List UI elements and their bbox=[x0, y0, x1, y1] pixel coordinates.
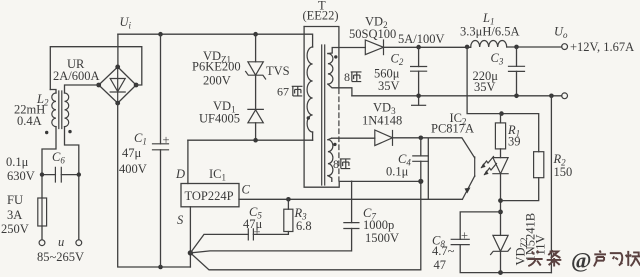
svg-text:+: + bbox=[461, 229, 468, 243]
svg-text:11V: 11V bbox=[534, 234, 548, 255]
svg-text:6.8: 6.8 bbox=[296, 219, 312, 233]
svg-text:TVS: TVS bbox=[266, 64, 290, 78]
svg-text:+: + bbox=[163, 133, 170, 147]
svg-text:8: 8 bbox=[344, 70, 350, 84]
svg-text:PC817A: PC817A bbox=[431, 122, 474, 136]
svg-text:85~265V: 85~265V bbox=[37, 250, 84, 264]
svg-text:47: 47 bbox=[434, 258, 447, 272]
svg-text:39: 39 bbox=[508, 135, 521, 149]
svg-text:35V: 35V bbox=[378, 79, 400, 93]
svg-text:TOP224P: TOP224P bbox=[185, 189, 234, 203]
svg-text:4.7~: 4.7~ bbox=[432, 244, 455, 258]
svg-text:(EE22): (EE22) bbox=[303, 9, 339, 23]
svg-text:630V: 630V bbox=[7, 169, 35, 183]
svg-text:FU: FU bbox=[7, 193, 23, 207]
svg-text:5A/100V: 5A/100V bbox=[398, 32, 445, 46]
svg-text:35V: 35V bbox=[474, 80, 496, 94]
svg-text:0.4A: 0.4A bbox=[17, 114, 42, 128]
svg-text:u: u bbox=[58, 235, 64, 249]
svg-text:3.3μH/6.5A: 3.3μH/6.5A bbox=[460, 25, 519, 39]
svg-text:UF4005: UF4005 bbox=[199, 112, 240, 126]
svg-text:250V: 250V bbox=[1, 222, 29, 236]
svg-text:150: 150 bbox=[554, 165, 573, 179]
svg-text:200V: 200V bbox=[203, 74, 231, 88]
svg-text:@: @ bbox=[571, 248, 591, 273]
svg-text:+12V, 1.67A: +12V, 1.67A bbox=[570, 40, 634, 54]
svg-text:0.1μ: 0.1μ bbox=[6, 155, 29, 169]
svg-text:1500V: 1500V bbox=[365, 231, 399, 245]
svg-text:2A/600A: 2A/600A bbox=[53, 69, 100, 83]
svg-text:S: S bbox=[177, 213, 184, 227]
svg-text:400V: 400V bbox=[119, 162, 147, 176]
svg-text:D: D bbox=[175, 167, 185, 181]
svg-text:0.1μ: 0.1μ bbox=[386, 165, 409, 179]
svg-text:1000p: 1000p bbox=[363, 218, 394, 232]
svg-text:8: 8 bbox=[333, 157, 339, 171]
svg-text:3A: 3A bbox=[7, 208, 22, 222]
svg-text:67: 67 bbox=[277, 85, 289, 99]
svg-text:50SQ100: 50SQ100 bbox=[349, 27, 396, 41]
svg-text:C: C bbox=[242, 183, 251, 197]
svg-text:1N4148: 1N4148 bbox=[362, 114, 402, 128]
svg-text:P6KE200: P6KE200 bbox=[192, 60, 241, 74]
svg-text:47μ: 47μ bbox=[122, 146, 142, 160]
svg-text:+: + bbox=[254, 225, 261, 239]
